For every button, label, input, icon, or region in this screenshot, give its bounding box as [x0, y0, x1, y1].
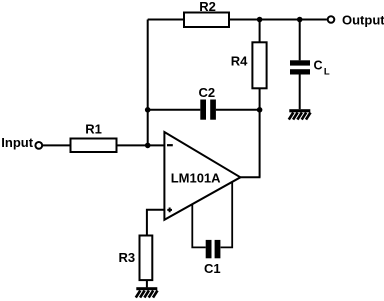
wire R4 bottom to op-amp output: [259, 88, 261, 177]
resistor R4: [231, 20, 267, 89]
svg-text:LM101A: LM101A: [171, 170, 221, 185]
resistor R2: [184, 0, 229, 27]
svg-text:R4: R4: [231, 53, 248, 68]
node A (top rail / R4 junction): [257, 17, 263, 23]
svg-text:C: C: [314, 58, 323, 72]
node D (left vertical / C2 junction): [145, 107, 151, 113]
capacitor C1: [204, 240, 221, 276]
output terminal: [328, 16, 335, 23]
pin label plus: [167, 208, 172, 213]
wire left feedback vertical: [147, 20, 149, 146]
resistor R3: [119, 236, 153, 281]
op-amp U1 LM101A: [164, 132, 240, 220]
wire comp pin 8 (C1 right): [221, 182, 233, 247]
svg-text:R2: R2: [199, 0, 216, 14]
node C (C2 / R4 junction): [257, 107, 263, 113]
svg-text:Output: Output: [342, 12, 384, 27]
wire top rail from R2 left to output: [148, 19, 327, 21]
svg-text:L: L: [324, 66, 330, 77]
node E (inverting input junction): [145, 143, 151, 149]
resistor R1: [43, 121, 117, 152]
wire op-amp output: [240, 176, 260, 178]
svg-text:R1: R1: [85, 121, 102, 136]
wire R1 to inverting input: [117, 144, 165, 146]
wire R3 to ground: [146, 280, 148, 287]
svg-text:C1: C1: [204, 261, 221, 276]
svg-text:C2: C2: [199, 85, 216, 100]
pin label minus: [167, 144, 173, 146]
capacitor C2: [148, 85, 260, 120]
capacitor CL: [290, 20, 330, 110]
svg-text:Input: Input: [1, 135, 33, 150]
wire non-inverting input to R3: [147, 210, 165, 236]
svg-text:R3: R3: [119, 250, 136, 265]
wire comp pin 1 (C1 left): [192, 204, 205, 247]
input terminal: [35, 142, 42, 149]
node B (top rail / CL junction): [297, 17, 303, 23]
ground (CL): [289, 109, 311, 119]
ground (R3): [136, 287, 158, 297]
